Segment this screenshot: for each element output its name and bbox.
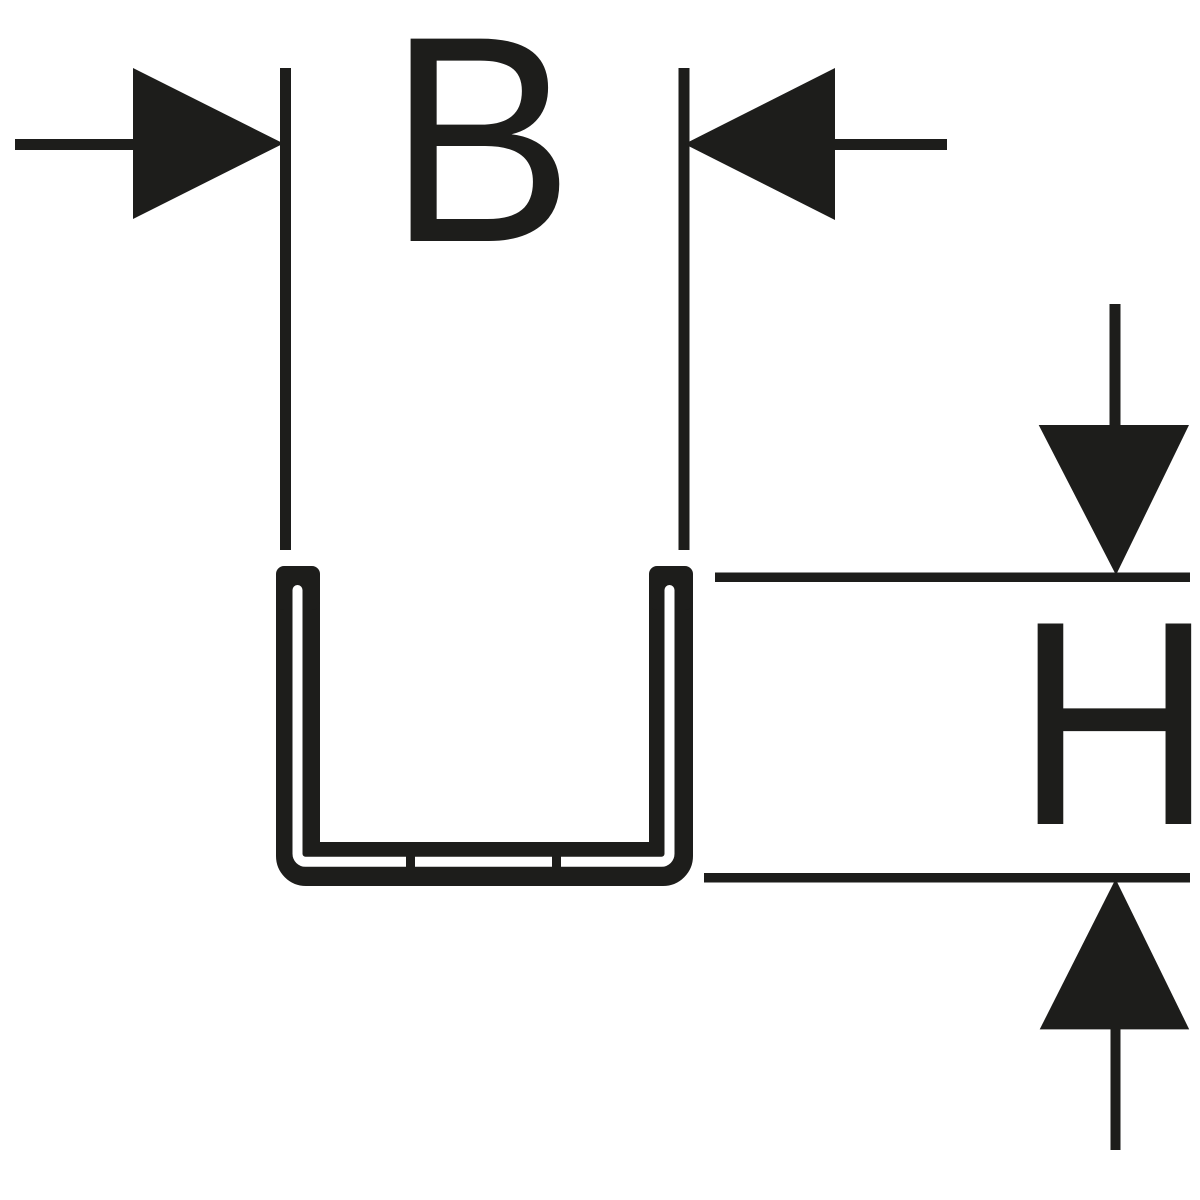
wire: H top dimension line	[715, 573, 1190, 583]
U-channel right wall top cap	[649, 566, 693, 610]
wire: B dimension right tail line	[835, 139, 947, 150]
U-channel profile body	[298, 600, 671, 864]
wire: H bottom dimension line	[704, 873, 1190, 883]
B dimension left arrowhead	[133, 68, 284, 219]
H top arrowhead (down)	[1039, 425, 1189, 575]
B dimension right arrowhead	[685, 68, 836, 220]
svg-text:H: H	[1015, 560, 1200, 886]
U-channel left wall top cap	[276, 566, 320, 610]
U-channel sheet core highlight	[298, 590, 670, 862]
H bottom arrowhead (up)	[1040, 879, 1190, 1029]
wire: H bottom arrow tail line	[1111, 1029, 1121, 1150]
wire: B right extension line	[679, 68, 690, 550]
wire: H top arrow tail line	[1110, 304, 1121, 432]
wire: B left extension line	[280, 68, 291, 550]
U-channel floor seam tick 1	[406, 848, 415, 872]
svg-text:B: B	[388, 0, 574, 304]
wire: B dimension left tail line	[15, 139, 135, 150]
U-channel floor seam tick 2	[552, 848, 561, 872]
